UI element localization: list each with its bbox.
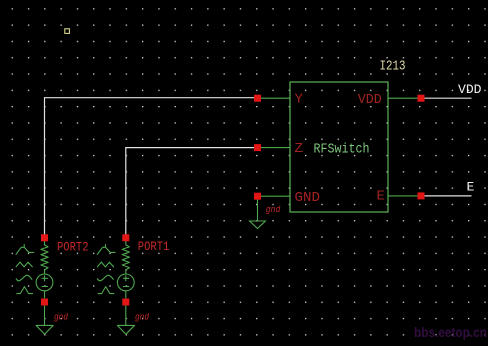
svg-text:E: E — [377, 188, 385, 204]
svg-text:RFSwitch: RFSwitch — [314, 141, 370, 157]
wire net E — [424, 195, 472, 197]
origin marker square — [65, 29, 70, 34]
svg-text:bbs.eetop.cn: bbs.eetop.cn — [414, 325, 487, 340]
wire net Y (horizontal+vertical to PORT2) — [45, 98, 255, 238]
pin square Y — [254, 95, 261, 102]
svg-text:VDD: VDD — [458, 82, 482, 97]
svg-text:Y: Y — [295, 92, 304, 108]
svg-text:Z: Z — [295, 141, 303, 157]
port PORT1 pin square bottom — [122, 299, 129, 306]
svg-text:PORT2: PORT2 — [57, 239, 89, 254]
port PORT1 pin square top — [122, 234, 129, 241]
svg-text:PORT1: PORT1 — [138, 239, 170, 254]
pin stub GND — [258, 195, 291, 197]
svg-text:I213: I213 — [380, 59, 406, 75]
pin stub VDD — [388, 97, 421, 99]
svg-text:VDD: VDD — [358, 92, 382, 108]
port PORT1 waveform icons — [97, 245, 115, 294]
port PORT2 pin square top — [41, 234, 48, 241]
port PORT2 body (resistor + source) — [36, 241, 53, 335]
wire net Z (horizontal+vertical to PORT1) — [126, 148, 255, 238]
ground symbol at GND pin — [250, 199, 266, 229]
svg-text:E: E — [467, 180, 475, 195]
pin square VDD — [418, 95, 425, 102]
pin stub Z — [258, 147, 291, 149]
svg-text:GND: GND — [295, 190, 321, 206]
pin square GND — [254, 193, 261, 200]
svg-text:gnd: gnd — [135, 312, 150, 322]
svg-text:gnd: gnd — [266, 205, 281, 215]
svg-text:gnd: gnd — [54, 312, 69, 322]
pin square E — [418, 192, 425, 199]
pin stub E — [388, 195, 421, 197]
pin stub Y — [258, 97, 291, 99]
port PORT1 body (resistor + source) — [117, 241, 134, 335]
port PORT2 pin square bottom — [41, 299, 48, 306]
op-amp U1 RFSwitch instance body — [290, 82, 388, 212]
port PORT2 waveform icons — [16, 245, 34, 294]
pin square Z — [254, 144, 261, 151]
wire net VDD — [424, 97, 472, 99]
